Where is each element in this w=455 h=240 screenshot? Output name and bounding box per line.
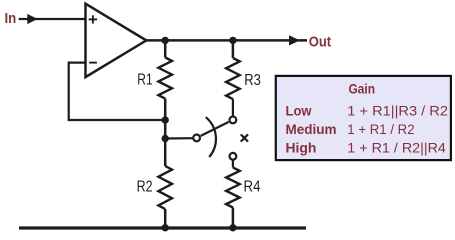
node R3 top junction dot bbox=[229, 37, 236, 44]
svg-text:High: High bbox=[286, 139, 317, 155]
wire R3 top bbox=[232, 40, 235, 58]
svg-text:1 + R1 / R2: 1 + R1 / R2 bbox=[347, 121, 415, 137]
wire R3 bottom to switch throw 1 bbox=[232, 99, 234, 116]
svg-text:R4: R4 bbox=[244, 178, 261, 195]
wire op-amp output to Out bbox=[146, 35, 307, 45]
gain table row Medium bbox=[286, 121, 415, 137]
node A junction dot (feedback) bbox=[162, 116, 169, 123]
resistor R2 bbox=[137, 166, 172, 209]
wire node A to node B bbox=[164, 120, 167, 139]
op-amp U1 bbox=[86, 4, 147, 77]
resistor R4 bbox=[226, 168, 260, 208]
svg-text:Out: Out bbox=[309, 35, 331, 51]
switch S1 wiper arm bbox=[201, 122, 229, 136]
wire R1 bottom to node A bbox=[164, 99, 167, 121]
svg-text:R2: R2 bbox=[137, 179, 153, 196]
svg-text:1 + R1||R3 / R2: 1 + R1||R3 / R2 bbox=[347, 102, 448, 118]
switch S1 throw 2 terminal bbox=[230, 153, 237, 160]
switch S1 pole terminal bbox=[193, 135, 200, 142]
node ground junction dot R4 bbox=[229, 224, 236, 231]
svg-text:1 + R1 / R2||R4: 1 + R1 / R2||R4 bbox=[347, 139, 446, 155]
switch S1 unconnected position mark x bbox=[241, 134, 248, 141]
node ground junction dot R2 bbox=[162, 224, 169, 231]
gain table row High bbox=[286, 139, 447, 155]
switch S1 throw 1 terminal bbox=[230, 117, 237, 124]
svg-text:R1: R1 bbox=[137, 72, 152, 89]
resistor R3 bbox=[226, 58, 261, 99]
wire node B to switch pole bbox=[165, 137, 193, 140]
node output junction dot on R1 column bbox=[162, 37, 169, 44]
node Out label bbox=[309, 35, 331, 51]
svg-text:Medium: Medium bbox=[286, 121, 337, 137]
gain table row Low bbox=[286, 102, 449, 118]
node B junction dot (switch pole tap) bbox=[162, 135, 169, 142]
wire node B down to R2 bbox=[164, 139, 167, 167]
wire R4 bottom to ground bus bbox=[232, 208, 235, 229]
svg-text:In: In bbox=[5, 11, 17, 27]
wire output node down to R1 bbox=[164, 40, 167, 57]
ground bus bbox=[19, 226, 306, 229]
wire throw 2 to R4 bbox=[232, 161, 234, 168]
svg-text:Gain: Gain bbox=[349, 80, 376, 96]
resistor R1 bbox=[137, 58, 172, 99]
switch S1 travel arc bbox=[206, 117, 216, 157]
svg-text:Low: Low bbox=[286, 102, 312, 118]
svg-text:R3: R3 bbox=[244, 72, 261, 89]
wire feedback from inverting input to node A bbox=[69, 63, 166, 120]
wire In to op-amp bbox=[19, 14, 86, 24]
node In label bbox=[5, 11, 17, 27]
gain table box bbox=[276, 76, 451, 160]
wire R2 bottom to ground bus bbox=[164, 209, 167, 228]
